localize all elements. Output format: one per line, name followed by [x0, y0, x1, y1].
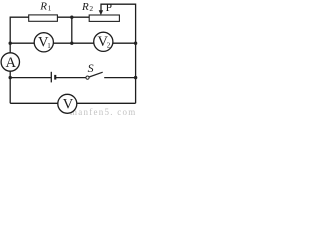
voltmeter V1 — [34, 33, 53, 52]
wire switch to right vertical — [104, 77, 135, 79]
wire top-left corner to R1 — [10, 17, 29, 103]
svg-text:manfen5. com: manfen5. com — [70, 107, 136, 117]
svg-text:1: 1 — [47, 42, 51, 50]
node junction dot right voltmeter row — [134, 42, 137, 45]
svg-text:V: V — [63, 97, 74, 113]
node junction dot left voltmeter row — [9, 42, 12, 45]
wire battery row left — [10, 77, 51, 79]
wire bottom row — [10, 102, 135, 104]
resistor R1 — [29, 15, 58, 21]
wire battery to switch — [56, 77, 86, 79]
wire slider P to top-right corner and right vertical — [101, 4, 136, 103]
wire voltmeter row — [10, 42, 135, 44]
wire R1 to R2 — [57, 16, 89, 18]
switch S — [86, 72, 103, 79]
slider arrowhead P — [99, 10, 103, 15]
node junction dot top middle — [70, 16, 73, 19]
wire middle vertical node between R1 and R2 down to voltmeter row — [71, 17, 73, 43]
battery cell — [51, 72, 56, 83]
svg-text:2: 2 — [107, 41, 111, 49]
svg-text:A: A — [6, 55, 17, 71]
node junction dot right switch row — [134, 76, 137, 79]
svg-text:R: R — [39, 0, 47, 12]
svg-text:2: 2 — [89, 4, 93, 13]
svg-text:P: P — [106, 2, 112, 14]
svg-text:R: R — [81, 1, 89, 13]
ammeter A — [1, 53, 19, 71]
svg-text:1: 1 — [48, 4, 52, 13]
node junction dot middle — [70, 42, 73, 45]
resistor R2 (rheostat) — [89, 15, 119, 21]
svg-text:S: S — [88, 61, 94, 75]
voltmeter V — [58, 94, 77, 113]
node junction dot left battery row — [9, 76, 12, 79]
voltmeter V2 — [94, 32, 113, 51]
